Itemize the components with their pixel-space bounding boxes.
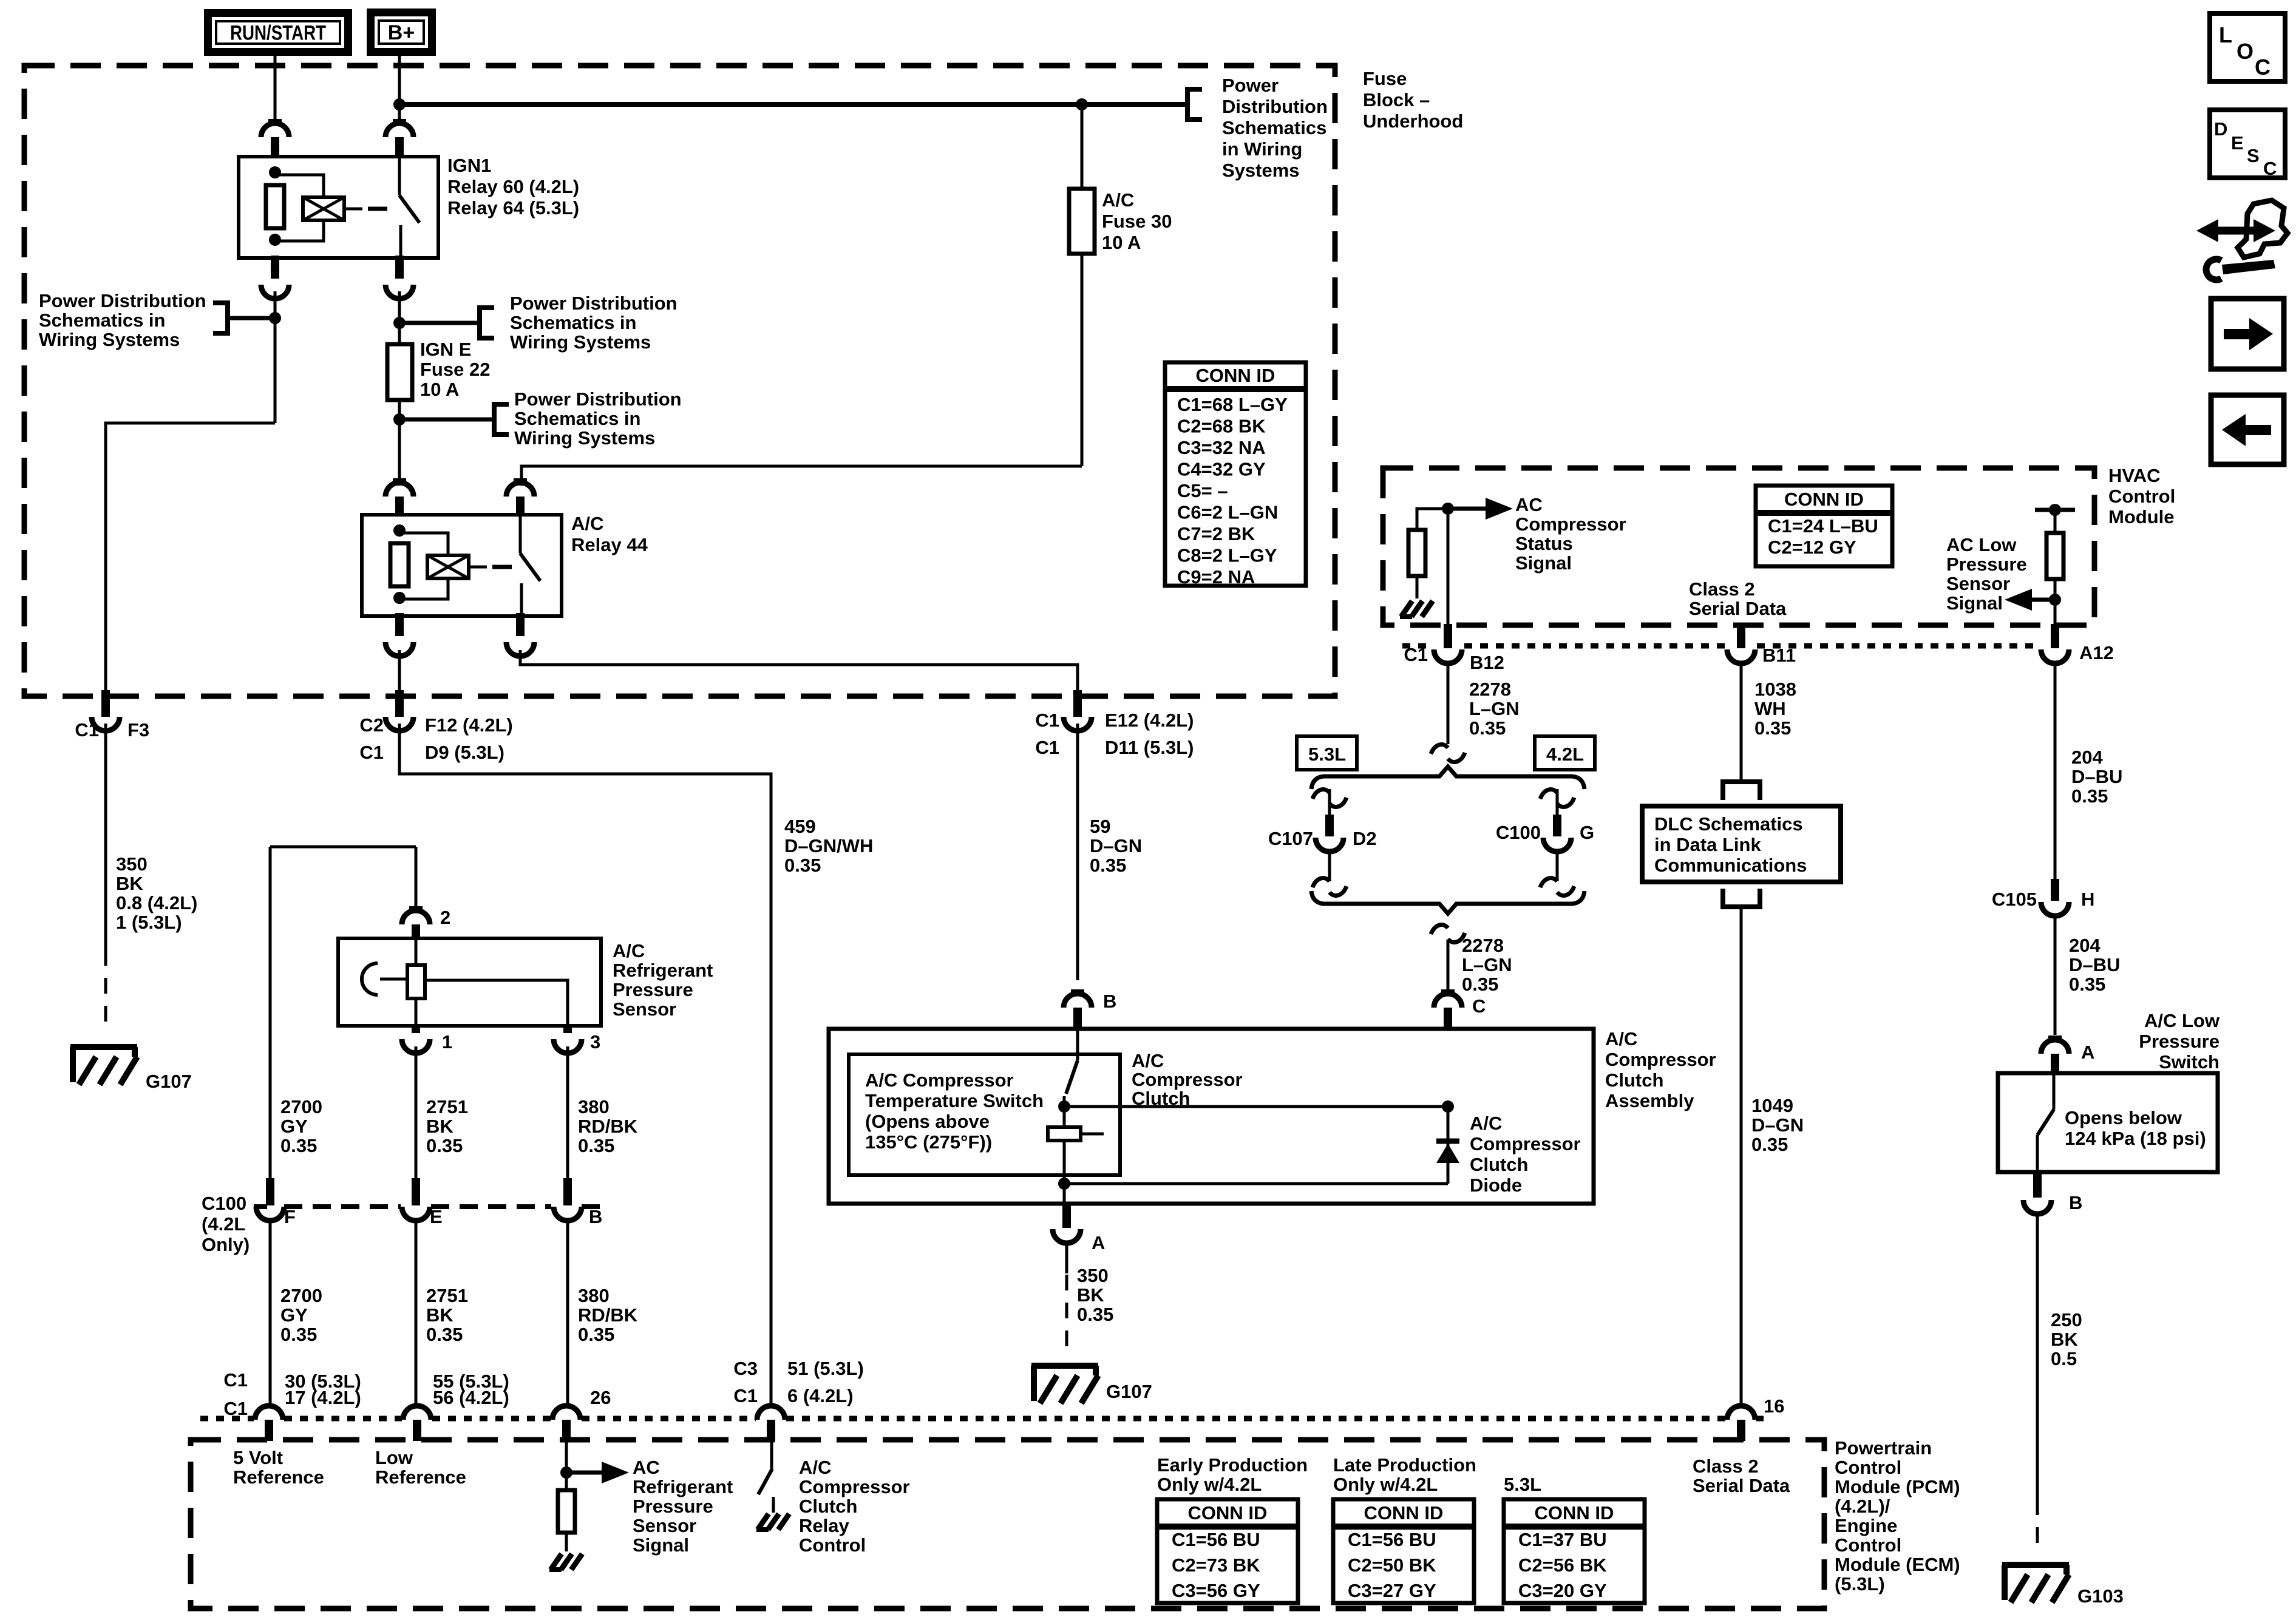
svg-text:C5= –: C5= – [1177, 480, 1228, 501]
svg-text:17 (4.2L): 17 (4.2L) [285, 1387, 361, 1408]
svg-text:A/C Low: A/C Low [2144, 1010, 2220, 1031]
svg-text:204: 204 [2069, 935, 2101, 956]
svg-text:Refrigerant: Refrigerant [633, 1476, 733, 1497]
svg-text:1038: 1038 [1754, 679, 1796, 700]
svg-text:Underhood: Underhood [1363, 110, 1463, 132]
svg-text:G103: G103 [2077, 1585, 2124, 1607]
svg-text:5 Volt: 5 Volt [233, 1447, 283, 1468]
svg-text:C105: C105 [1992, 889, 2037, 910]
svg-text:Diode: Diode [1470, 1175, 1522, 1196]
svg-text:Communications: Communications [1654, 855, 1807, 876]
svg-text:Relay 44: Relay 44 [571, 534, 648, 555]
svg-text:51 (5.3L): 51 (5.3L) [787, 1358, 864, 1379]
svg-text:Relay 60 (4.2L): Relay 60 (4.2L) [447, 176, 579, 197]
svg-text:0.35: 0.35 [578, 1135, 614, 1156]
svg-text:C1: C1 [359, 742, 384, 763]
svg-text:C1=56 BU: C1=56 BU [1348, 1529, 1436, 1550]
svg-text:C: C [2255, 55, 2271, 80]
svg-text:Wiring Systems: Wiring Systems [514, 427, 655, 449]
svg-text:0.5: 0.5 [2051, 1348, 2077, 1369]
svg-text:1 (5.3L): 1 (5.3L) [116, 912, 182, 933]
svg-text:Power Distribution: Power Distribution [514, 388, 682, 410]
svg-text:C100: C100 [202, 1193, 246, 1214]
svg-text:Sensor: Sensor [633, 1515, 696, 1536]
svg-text:C2=56 BK: C2=56 BK [1518, 1554, 1607, 1576]
svg-text:Class 2: Class 2 [1689, 578, 1755, 600]
svg-text:Clutch: Clutch [1605, 1070, 1663, 1091]
svg-text:C2=68 BK: C2=68 BK [1177, 416, 1266, 437]
svg-text:RUN/START: RUN/START [230, 22, 326, 45]
svg-text:2700: 2700 [280, 1096, 322, 1117]
svg-text:B+: B+ [388, 21, 415, 44]
svg-text:F: F [284, 1206, 296, 1227]
svg-text:135°C (275°F)): 135°C (275°F)) [865, 1131, 992, 1153]
svg-text:D–BU: D–BU [2069, 954, 2120, 975]
svg-text:Temperature Switch: Temperature Switch [865, 1090, 1044, 1111]
svg-text:4.2L: 4.2L [1546, 744, 1584, 765]
svg-text:Relay: Relay [799, 1515, 849, 1536]
svg-text:B12: B12 [1470, 652, 1504, 673]
svg-text:CONN ID: CONN ID [1784, 489, 1864, 510]
svg-text:H: H [2081, 889, 2094, 910]
svg-text:F12 (4.2L): F12 (4.2L) [425, 714, 513, 736]
svg-text:0.35: 0.35 [2069, 974, 2105, 995]
svg-text:CONN ID: CONN ID [1188, 1502, 1268, 1524]
svg-text:380: 380 [578, 1096, 610, 1117]
svg-text:C2=50 BK: C2=50 BK [1348, 1554, 1436, 1576]
svg-text:A12: A12 [2079, 642, 2114, 663]
svg-text:B: B [589, 1206, 602, 1227]
svg-text:Status: Status [1515, 533, 1573, 554]
svg-text:Low: Low [375, 1447, 413, 1468]
svg-text:C4=32 GY: C4=32 GY [1177, 459, 1266, 480]
svg-text:GY: GY [280, 1116, 308, 1137]
svg-text:0.35: 0.35 [1754, 717, 1791, 739]
svg-text:C3=27 GY: C3=27 GY [1348, 1580, 1436, 1601]
svg-text:A/C: A/C [1605, 1028, 1637, 1049]
svg-text:Late Production: Late Production [1333, 1454, 1476, 1476]
svg-text:0.35: 0.35 [578, 1324, 614, 1345]
svg-text:C1: C1 [223, 1398, 248, 1419]
svg-text:Distribution: Distribution [1222, 96, 1328, 117]
svg-text:Compressor: Compressor [1515, 514, 1626, 535]
svg-text:C6=2 L–GN: C6=2 L–GN [1177, 502, 1278, 523]
svg-text:Wiring Systems: Wiring Systems [39, 329, 180, 350]
svg-text:204: 204 [2071, 747, 2103, 768]
svg-text:Engine: Engine [1835, 1515, 1897, 1536]
svg-text:BK: BK [426, 1304, 453, 1326]
svg-text:10 A: 10 A [1102, 232, 1141, 253]
svg-text:F3: F3 [127, 719, 149, 741]
svg-text:C2: C2 [359, 714, 384, 736]
svg-text:Control: Control [799, 1534, 866, 1556]
svg-text:DLC Schematics: DLC Schematics [1654, 813, 1803, 835]
svg-text:A/C: A/C [1102, 189, 1134, 211]
svg-text:C3: C3 [733, 1358, 758, 1379]
svg-text:10 A: 10 A [420, 379, 459, 400]
svg-text:Assembly: Assembly [1605, 1090, 1694, 1111]
svg-text:C1: C1 [1035, 737, 1059, 758]
svg-text:D9 (5.3L): D9 (5.3L) [425, 742, 504, 763]
svg-text:Only w/4.2L: Only w/4.2L [1157, 1474, 1262, 1495]
svg-text:Compressor: Compressor [1470, 1133, 1581, 1154]
svg-text:C3=32 NA: C3=32 NA [1177, 437, 1266, 458]
svg-text:G107: G107 [1106, 1381, 1152, 1402]
svg-text:Wiring Systems: Wiring Systems [510, 331, 651, 353]
svg-text:Control: Control [2108, 486, 2175, 507]
svg-text:IGN E: IGN E [420, 339, 471, 360]
svg-text:0.35: 0.35 [280, 1135, 317, 1156]
svg-text:C: C [2263, 158, 2277, 179]
svg-text:Power: Power [1222, 75, 1279, 96]
svg-text:Fuse 22: Fuse 22 [420, 359, 490, 380]
svg-text:C1=68 L–GY: C1=68 L–GY [1177, 394, 1288, 415]
svg-text:BK: BK [116, 873, 143, 894]
svg-text:1: 1 [442, 1031, 452, 1053]
svg-text:BK: BK [1077, 1284, 1104, 1306]
svg-text:0.35: 0.35 [426, 1135, 463, 1156]
svg-text:Module (PCM): Module (PCM) [1835, 1476, 1960, 1497]
svg-text:Reference: Reference [375, 1466, 466, 1488]
svg-text:C100: C100 [1496, 822, 1541, 843]
svg-text:Schematics: Schematics [1222, 117, 1326, 138]
svg-text:D–GN/WH: D–GN/WH [784, 835, 873, 856]
svg-text:CONN ID: CONN ID [1535, 1502, 1614, 1524]
svg-text:in Wiring: in Wiring [1222, 138, 1302, 160]
svg-text:C2=73 BK: C2=73 BK [1172, 1554, 1260, 1576]
svg-text:G107: G107 [146, 1071, 192, 1092]
svg-text:O: O [2237, 39, 2254, 64]
svg-text:Reference: Reference [233, 1466, 324, 1488]
svg-text:0.35: 0.35 [1462, 974, 1498, 995]
svg-text:3: 3 [590, 1031, 600, 1053]
svg-text:Control: Control [1835, 1534, 1901, 1556]
svg-text:C1: C1 [733, 1385, 758, 1406]
svg-text:IGN1: IGN1 [447, 155, 491, 176]
svg-text:Clutch: Clutch [799, 1496, 857, 1517]
svg-text:Sensor: Sensor [613, 998, 676, 1020]
svg-text:E12 (4.2L): E12 (4.2L) [1105, 710, 1194, 731]
svg-text:S: S [2247, 145, 2260, 166]
svg-text:Systems: Systems [1222, 160, 1300, 181]
svg-text:350: 350 [116, 853, 148, 875]
svg-text:A/C Compressor: A/C Compressor [865, 1070, 1014, 1091]
svg-text:BK: BK [2051, 1329, 2078, 1350]
svg-text:Sensor: Sensor [1946, 573, 2010, 594]
svg-text:Refrigerant: Refrigerant [613, 960, 713, 981]
svg-text:CONN ID: CONN ID [1364, 1502, 1444, 1524]
svg-text:C8=2 L–GY: C8=2 L–GY [1177, 545, 1277, 566]
svg-text:Signal: Signal [1515, 552, 1572, 574]
svg-text:L–GN: L–GN [1462, 954, 1512, 975]
svg-text:124 kPa (18 psi): 124 kPa (18 psi) [2065, 1128, 2206, 1149]
svg-text:B11: B11 [1762, 645, 1796, 666]
svg-text:26: 26 [590, 1387, 611, 1408]
svg-text:Relay 64 (5.3L): Relay 64 (5.3L) [447, 197, 579, 219]
svg-text:5.3L: 5.3L [1504, 1474, 1541, 1495]
svg-text:C1=24 L–BU: C1=24 L–BU [1768, 515, 1878, 537]
svg-text:380: 380 [578, 1285, 610, 1306]
svg-text:L–GN: L–GN [1469, 698, 1520, 719]
svg-text:Serial Data: Serial Data [1689, 598, 1787, 619]
svg-text:Opens below: Opens below [2065, 1107, 2182, 1128]
svg-text:2278: 2278 [1462, 935, 1504, 956]
svg-text:C: C [1472, 995, 1486, 1017]
svg-text:A: A [1092, 1232, 1105, 1253]
svg-text:RD/BK: RD/BK [578, 1304, 638, 1326]
svg-text:CONN ID: CONN ID [1196, 365, 1275, 386]
svg-text:A/C: A/C [1470, 1113, 1502, 1134]
svg-text:Compressor: Compressor [1605, 1049, 1716, 1070]
svg-text:Serial Data: Serial Data [1693, 1475, 1790, 1496]
svg-text:C9=2 NA: C9=2 NA [1177, 566, 1255, 588]
svg-text:2700: 2700 [280, 1285, 322, 1306]
svg-text:Pressure: Pressure [613, 979, 693, 1000]
svg-text:Only): Only) [202, 1234, 250, 1255]
svg-text:0.35: 0.35 [784, 855, 821, 876]
svg-text:E: E [2231, 132, 2244, 154]
svg-text:C1: C1 [1035, 710, 1059, 731]
svg-text:C3=20 GY: C3=20 GY [1518, 1580, 1607, 1601]
svg-text:C7=2 BK: C7=2 BK [1177, 523, 1255, 544]
svg-text:WH: WH [1754, 698, 1786, 719]
svg-text:HVAC: HVAC [2108, 465, 2161, 486]
svg-text:C1=37 BU: C1=37 BU [1518, 1529, 1607, 1550]
svg-text:D–GN: D–GN [1751, 1114, 1804, 1136]
svg-text:0.35: 0.35 [1751, 1134, 1788, 1155]
svg-text:459: 459 [784, 816, 816, 837]
svg-text:(5.3L): (5.3L) [1835, 1573, 1885, 1595]
svg-text:in Data Link: in Data Link [1654, 834, 1761, 855]
svg-text:Clutch: Clutch [1470, 1154, 1528, 1175]
svg-text:2278: 2278 [1469, 679, 1511, 700]
svg-text:Only w/4.2L: Only w/4.2L [1333, 1474, 1438, 1495]
svg-text:0.35: 0.35 [426, 1324, 463, 1345]
svg-text:G: G [1580, 822, 1594, 843]
svg-text:RD/BK: RD/BK [578, 1116, 638, 1137]
svg-text:C2=12 GY: C2=12 GY [1768, 537, 1856, 558]
svg-text:6 (4.2L): 6 (4.2L) [787, 1385, 854, 1406]
svg-text:16: 16 [1764, 1395, 1784, 1417]
svg-text:350: 350 [1077, 1265, 1109, 1286]
svg-text:B: B [2069, 1192, 2082, 1213]
svg-text:C1: C1 [1404, 644, 1428, 665]
svg-text:0.35: 0.35 [1469, 717, 1506, 739]
svg-text:Pressure: Pressure [1946, 554, 2027, 575]
svg-text:AC Low: AC Low [1946, 534, 2017, 555]
svg-text:Pressure: Pressure [2139, 1031, 2220, 1052]
svg-text:Module: Module [2108, 506, 2175, 527]
svg-text:56 (4.2L): 56 (4.2L) [433, 1387, 509, 1408]
svg-text:C1: C1 [75, 719, 99, 741]
svg-text:D: D [2214, 118, 2227, 140]
svg-text:Module (ECM): Module (ECM) [1835, 1554, 1960, 1575]
svg-text:C1=56 BU: C1=56 BU [1172, 1529, 1260, 1550]
svg-text:0.35: 0.35 [1090, 855, 1126, 876]
svg-text:E: E [430, 1206, 443, 1227]
svg-text:0.8 (4.2L): 0.8 (4.2L) [116, 892, 197, 914]
svg-text:Fuse: Fuse [1363, 68, 1407, 89]
svg-text:GY: GY [280, 1304, 308, 1326]
svg-text:A/C: A/C [799, 1457, 831, 1478]
svg-text:Power Distribution: Power Distribution [39, 290, 206, 311]
svg-text:Schematics in: Schematics in [39, 310, 165, 331]
svg-text:1049: 1049 [1751, 1095, 1793, 1116]
svg-text:C107: C107 [1268, 828, 1313, 849]
svg-text:Powertrain: Powertrain [1835, 1437, 1932, 1459]
svg-text:D2: D2 [1353, 828, 1377, 849]
svg-text:(Opens above: (Opens above [865, 1111, 990, 1132]
svg-text:0.35: 0.35 [280, 1324, 317, 1345]
svg-text:Fuse 30: Fuse 30 [1102, 211, 1172, 232]
svg-text:Schematics in: Schematics in [514, 408, 640, 429]
svg-text:5.3L: 5.3L [1308, 744, 1346, 765]
svg-text:AC: AC [633, 1457, 660, 1478]
svg-text:Pressure: Pressure [633, 1496, 713, 1517]
svg-text:Signal: Signal [633, 1534, 689, 1556]
svg-text:Class 2: Class 2 [1693, 1456, 1759, 1477]
svg-text:Switch: Switch [2159, 1051, 2220, 1073]
svg-text:250: 250 [2051, 1309, 2082, 1331]
svg-text:59: 59 [1090, 816, 1110, 837]
svg-text:B: B [1103, 991, 1116, 1012]
svg-text:A/C: A/C [1132, 1050, 1164, 1071]
svg-text:A/C: A/C [613, 940, 645, 961]
svg-text:Block –: Block – [1363, 89, 1430, 110]
svg-text:Early Production: Early Production [1157, 1454, 1308, 1476]
svg-text:Power Distribution: Power Distribution [510, 293, 678, 314]
svg-text:0.35: 0.35 [1077, 1304, 1113, 1325]
svg-text:D–GN: D–GN [1090, 835, 1142, 856]
svg-text:BK: BK [426, 1116, 453, 1137]
svg-text:(4.2L)/: (4.2L)/ [1835, 1496, 1890, 1517]
svg-text:Compressor: Compressor [1132, 1069, 1243, 1090]
svg-text:Compressor: Compressor [799, 1476, 910, 1497]
svg-text:2751: 2751 [426, 1285, 468, 1306]
svg-text:AC: AC [1515, 494, 1543, 515]
svg-text:Clutch: Clutch [1132, 1088, 1190, 1109]
svg-text:A: A [2081, 1042, 2094, 1063]
svg-text:Signal: Signal [1946, 592, 2003, 614]
svg-text:(4.2L: (4.2L [202, 1213, 245, 1235]
svg-text:0.35: 0.35 [2071, 785, 2108, 807]
svg-text:L: L [2219, 22, 2232, 47]
svg-text:2: 2 [440, 907, 450, 928]
svg-text:C3=56 GY: C3=56 GY [1172, 1580, 1260, 1601]
svg-text:A/C: A/C [571, 513, 603, 534]
svg-text:C1: C1 [223, 1369, 248, 1391]
svg-text:Control: Control [1835, 1457, 1901, 1478]
svg-text:D11 (5.3L): D11 (5.3L) [1105, 737, 1194, 758]
svg-text:D–BU: D–BU [2071, 766, 2122, 787]
svg-text:2751: 2751 [426, 1096, 468, 1117]
svg-text:Schematics in: Schematics in [510, 312, 636, 333]
